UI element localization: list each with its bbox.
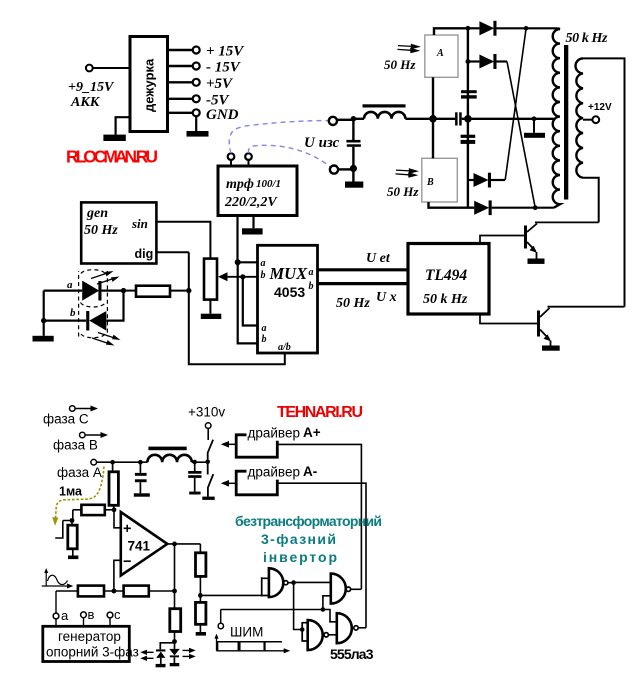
transistor Q1: [524, 224, 537, 253]
svg-text:інвертор: інвертор: [263, 549, 337, 565]
svg-text:b: b: [262, 334, 267, 345]
node junction трф/MUX-a: [235, 259, 241, 265]
svg-text:GND: GND: [206, 107, 239, 123]
svg-text:50 k Hz: 50 k Hz: [423, 292, 468, 307]
wire junction to transformer tap: [462, 118, 554, 120]
svg-text:U x: U x: [376, 290, 397, 305]
svg-text:трф: трф: [226, 177, 254, 192]
svg-text:100/1: 100/1: [256, 178, 281, 190]
diode D4: [474, 200, 554, 215]
node junction D1 line x-wire: [524, 26, 529, 31]
capacitor C3 on rail: [461, 90, 477, 98]
LED D8 down: [169, 642, 180, 667]
LED D6 optocoupler b: [44, 291, 124, 331]
ground at mid tap: [524, 119, 545, 138]
wire G1 output down to G3: [294, 583, 303, 630]
wire dig output: [156, 251, 188, 253]
wire ШИМ line: [221, 609, 323, 611]
node junction ШИМ/G2: [321, 607, 326, 612]
wire plus input: [114, 510, 121, 528]
LED D7 up: [156, 643, 175, 668]
svg-text:+12V: +12V: [588, 102, 612, 113]
wire rail to box B top: [432, 119, 434, 159]
node junction gate feed: [198, 593, 203, 598]
op-amp U2 741: [121, 512, 168, 576]
svg-text:dig: dig: [135, 247, 154, 261]
wire G3 output to G4 lower input: [328, 634, 336, 636]
node junction rail left: [351, 116, 357, 122]
svg-text:фаза В: фаза В: [53, 438, 98, 453]
node terminal a: [53, 608, 69, 626]
diode D3: [468, 173, 505, 188]
LED D5 optocoupler a: [44, 279, 124, 301]
ground under R6: [196, 632, 206, 636]
resistor R6 vertical: [196, 602, 206, 632]
svg-text:741: 741: [128, 539, 151, 554]
wire potentiometer to ground: [209, 300, 211, 314]
svg-text:a: a: [67, 279, 73, 291]
node U-vx top terminal: [329, 117, 337, 125]
svg-text:a: a: [262, 323, 267, 334]
resistor R1: [124, 286, 189, 297]
node junction rail row2: [466, 59, 471, 64]
core bar of L1: [363, 104, 406, 107]
capacitor C6: [188, 462, 201, 494]
node +12V terminal: [583, 102, 612, 123]
svg-text:50 Hz: 50 Hz: [384, 57, 416, 72]
svg-text:TEHNARI.RU: TEHNARI.RU: [277, 404, 363, 421]
svg-text:RLOCMAN.RU: RLOCMAN.RU: [66, 147, 158, 167]
node junction D4 line x-wire: [533, 205, 538, 210]
svg-text:А+: А+: [303, 425, 321, 440]
node junction minus input: [112, 589, 117, 594]
wire фаза A line: [97, 461, 148, 463]
wire R9 left to injection node: [55, 510, 73, 538]
arrow driver A- output: [221, 480, 236, 487]
wire bottom terminal to junction: [338, 168, 352, 170]
node фаза C terminal: [43, 406, 98, 427]
emission arrows bottom: [92, 333, 121, 346]
svg-text:U изс: U изс: [304, 135, 340, 151]
capacitor C5: [134, 462, 150, 496]
ground LED left: [33, 336, 54, 342]
node junction dig/resistor: [186, 288, 191, 293]
capacitor C2 series coupling: [455, 112, 462, 125]
ground Q2 emitter: [542, 341, 560, 351]
switch block B: [422, 158, 458, 202]
node junction after C2: [464, 115, 472, 123]
transformer T1 трф 100/1: [218, 166, 297, 216]
gate G1 NAND: [262, 568, 288, 597]
gate G3 NAND: [300, 620, 328, 650]
svg-text:b: b: [70, 307, 76, 319]
wire box A bottom to rail: [432, 77, 434, 119]
wire box A top to diode row1: [434, 28, 466, 35]
svg-text:А-: А-: [303, 464, 317, 479]
resistor R4: [124, 586, 175, 597]
block driver A+: [236, 425, 321, 457]
ground under GND terminal: [187, 131, 209, 137]
svg-text:ШИМ: ШИМ: [230, 625, 263, 640]
node junction output divider: [172, 589, 177, 594]
svg-text:+310v: +310v: [188, 405, 225, 420]
transformer T2 core bar: [564, 45, 568, 200]
node junction at switch: [205, 460, 210, 465]
ground Q1 emitter: [528, 252, 545, 264]
svg-text:дежурка: дежурка: [142, 58, 157, 112]
svg-text:555ла3: 555ла3: [330, 646, 374, 662]
PWM waveform icon: [214, 634, 290, 654]
node -15V terminal: [193, 60, 242, 76]
svg-text:с: с: [114, 607, 121, 622]
svg-text:фаза А: фаза А: [57, 465, 102, 480]
svg-text:3-фазний: 3-фазний: [261, 531, 336, 547]
label 50 Hz arrows at A: [384, 44, 421, 72]
svg-text:a/b: a/b: [278, 342, 291, 353]
svg-text:a: a: [61, 608, 69, 623]
wire ШИМ to G4 upper input: [323, 610, 337, 622]
wire трф left lead to MUX pin a: [238, 216, 258, 263]
node junction R8 top: [70, 518, 75, 523]
wire MUX a/b control from dig bus: [189, 252, 285, 364]
ground below lower junction: [345, 168, 363, 187]
potentiometer RP1: [204, 259, 258, 300]
resistor R9 horizontal: [73, 505, 114, 515]
svg-text:безтрансформаторний: безтрансформаторний: [235, 513, 382, 529]
wire diode column rail: [467, 28, 469, 207]
resistor R8 vertical: [68, 521, 77, 556]
node junction lower: [350, 165, 357, 172]
wire rail to inductor: [353, 118, 364, 120]
node terminal c: [107, 607, 121, 626]
emission arrows top: [91, 271, 120, 284]
resistor R5 vertical: [196, 544, 206, 603]
node junction wiper bus: [240, 274, 245, 279]
node трф terminal 2: [245, 153, 252, 166]
node junction op-amp output: [172, 542, 177, 547]
block U1 дежурка standby supply: [130, 37, 168, 132]
wire TL494 to Q2 base: [480, 314, 537, 324]
wire driver A- to gate G4: [277, 483, 366, 628]
node junction LED left: [41, 318, 46, 323]
capacitor C1 input filter: [346, 119, 361, 168]
node +9_15V input terminal: [68, 65, 115, 110]
wire crossing diagonal A: [507, 62, 535, 208]
ground under potentiometer: [201, 314, 222, 319]
svg-text:драйвер: драйвер: [248, 426, 300, 441]
wire divider to gate G1: [200, 594, 261, 596]
ground under дежурка: [103, 135, 125, 141]
svg-text:фаза С: фаза С: [43, 412, 89, 427]
node ШИМ terminal: [218, 610, 263, 640]
wire crossing diagonal B: [505, 28, 526, 180]
wire box B bottom to diode row4: [429, 202, 475, 208]
wire MUX b to TL494 U-x: [318, 282, 409, 285]
block driver A-: [236, 464, 317, 495]
wire inductor to switch column: [192, 461, 208, 463]
wire Q1 collector: [535, 221, 599, 223]
svg-text:b: b: [309, 281, 314, 292]
resistor R3: [78, 586, 124, 597]
inductor L1: [364, 112, 405, 119]
svg-text:a: a: [261, 258, 266, 269]
node U-vx bottom terminal: [330, 166, 338, 174]
svg-text:U et: U et: [366, 251, 391, 266]
wire input to дежурка: [93, 67, 130, 69]
gate G2 NAND: [323, 574, 362, 610]
ground under трф: [242, 228, 263, 234]
svg-text:+ 15V: + 15V: [206, 44, 245, 60]
wire left LED bus to ground: [43, 291, 45, 336]
node junction at R2: [110, 460, 115, 465]
node junction LED pair: [172, 639, 177, 644]
wire -5V pin: [168, 98, 193, 100]
svg-text:+9_15V: +9_15V: [68, 80, 115, 95]
svg-text:a: a: [309, 267, 314, 278]
node +310v terminal: [188, 405, 225, 441]
svg-text:50 Hz: 50 Hz: [84, 223, 118, 238]
node junction mid ground tap: [532, 116, 537, 121]
waveform sine icon: [42, 568, 74, 589]
svg-text:50 Hz: 50 Hz: [336, 296, 370, 311]
node трф terminal 1: [228, 153, 235, 166]
wire a-phase reference down: [55, 591, 57, 613]
node фаза A terminal: [57, 459, 102, 480]
wire Q2 collector to right rail: [548, 306, 625, 308]
svg-text:50 k Hz: 50 k Hz: [566, 31, 609, 46]
wire top terminal to rail: [337, 119, 352, 121]
svg-text:в: в: [88, 607, 95, 622]
wire TL494 to Q1 base: [480, 236, 524, 244]
wire minus input: [114, 560, 121, 591]
gate G4 NAND: [337, 613, 366, 643]
dashed link трф terminal2 to U-vx bottom: [248, 145, 330, 167]
svg-text:220/2,2V: 220/2,2V: [224, 195, 278, 210]
svg-text:b: b: [261, 270, 266, 281]
wire +15V pin: [168, 49, 193, 51]
svg-text:драйвер: драйвер: [248, 465, 300, 480]
switch S2 low side: [208, 462, 214, 497]
dashed current arrow 1ма: [52, 467, 104, 526]
svg-text:1ма: 1ма: [59, 485, 83, 499]
node junction LED right: [121, 288, 126, 293]
svg-text:TL494: TL494: [425, 267, 467, 284]
wire b-bus down to MUX pin a lower: [243, 277, 258, 326]
resistor R2 vertical: [109, 462, 118, 510]
diode D2: [468, 54, 507, 69]
svg-text:A: A: [436, 48, 444, 59]
node junction G1 output: [291, 580, 296, 585]
wire MUX a to TL494 U-et: [318, 268, 409, 271]
emission arrows left of LEDs: [140, 650, 153, 661]
svg-text:MUX: MUX: [269, 264, 309, 283]
svg-text:4053: 4053: [274, 284, 305, 300]
diode D1: [468, 21, 558, 36]
node terminal в: [81, 607, 95, 626]
switch block A: [425, 35, 458, 77]
wire G1 to G2 input: [288, 581, 331, 583]
svg-text:B: B: [426, 177, 434, 188]
node junction at C5: [138, 460, 143, 465]
IC U4 MUX 4053: [258, 245, 318, 353]
switch S1 high side: [208, 440, 213, 462]
wire output down: [174, 544, 176, 609]
arrow driver A+ output: [221, 441, 236, 448]
block U5 gen 50Hz: [81, 202, 156, 263]
wire -15V pin: [168, 65, 193, 67]
wire junction to series capacitor: [433, 118, 455, 120]
optocoupler dashed envelope: [79, 270, 108, 338]
svg-text:gen: gen: [86, 206, 108, 221]
node junction at C6: [192, 460, 197, 465]
wire op-amp output: [167, 543, 200, 545]
transformer T2 primary winding: [553, 28, 560, 207]
wire driver A+ to gate G2: [277, 444, 361, 589]
label безтрансформаторний inverter title: [235, 513, 382, 565]
transistor Q2: [537, 308, 551, 341]
node GND terminal: [193, 107, 239, 123]
wire трф right lead down: [252, 216, 254, 229]
dashed link трф terminal1 to U-vx top: [229, 121, 329, 154]
wire GND terminal to ground: [195, 116, 197, 131]
svg-text:генератор: генератор: [58, 629, 121, 644]
wire +5V pin: [168, 81, 193, 83]
node +5V terminal: [193, 76, 234, 92]
node -5V terminal: [193, 93, 231, 109]
wire sin output to potentiometer: [156, 222, 210, 259]
capacitor C4 on rail: [461, 135, 476, 144]
wire дежурка to ground: [116, 117, 130, 134]
bar output of S2: [202, 497, 214, 500]
ground under R8: [68, 556, 78, 560]
node junction center rail: [429, 115, 437, 123]
resistor R7 vertical: [170, 609, 181, 642]
svg-text:опорний 3-фаз: опорний 3-фаз: [46, 645, 139, 660]
wire inductor to center junction: [405, 118, 433, 120]
transformer T2 secondary winding: [576, 58, 584, 177]
wire secondary bottom down: [583, 178, 599, 223]
node фаза B terminal: [53, 432, 108, 453]
node junction diode rail top: [466, 26, 471, 31]
svg-text:- 15V: - 15V: [206, 60, 242, 76]
wire secondary top to right rail: [583, 58, 625, 306]
svg-text:АКК: АКК: [70, 95, 101, 110]
node +15V terminal: [193, 44, 246, 60]
wire GND pin: [168, 112, 193, 114]
block U6 генератор опорний 3-фаз: [43, 626, 139, 661]
emission arrows right of LEDs: [183, 648, 196, 659]
wire main feedback line left: [56, 590, 78, 592]
wire a-bus down to MUX pin b lower: [238, 262, 258, 343]
IC U3 TL494: [408, 244, 489, 315]
svg-text:+5V: +5V: [206, 76, 234, 92]
label 50 Hz arrows at B: [387, 168, 419, 199]
node junction R2/R9: [112, 507, 117, 512]
svg-text:50 Hz: 50 Hz: [387, 184, 419, 199]
inductor L2: [147, 447, 191, 463]
svg-text:sin: sin: [131, 216, 148, 231]
